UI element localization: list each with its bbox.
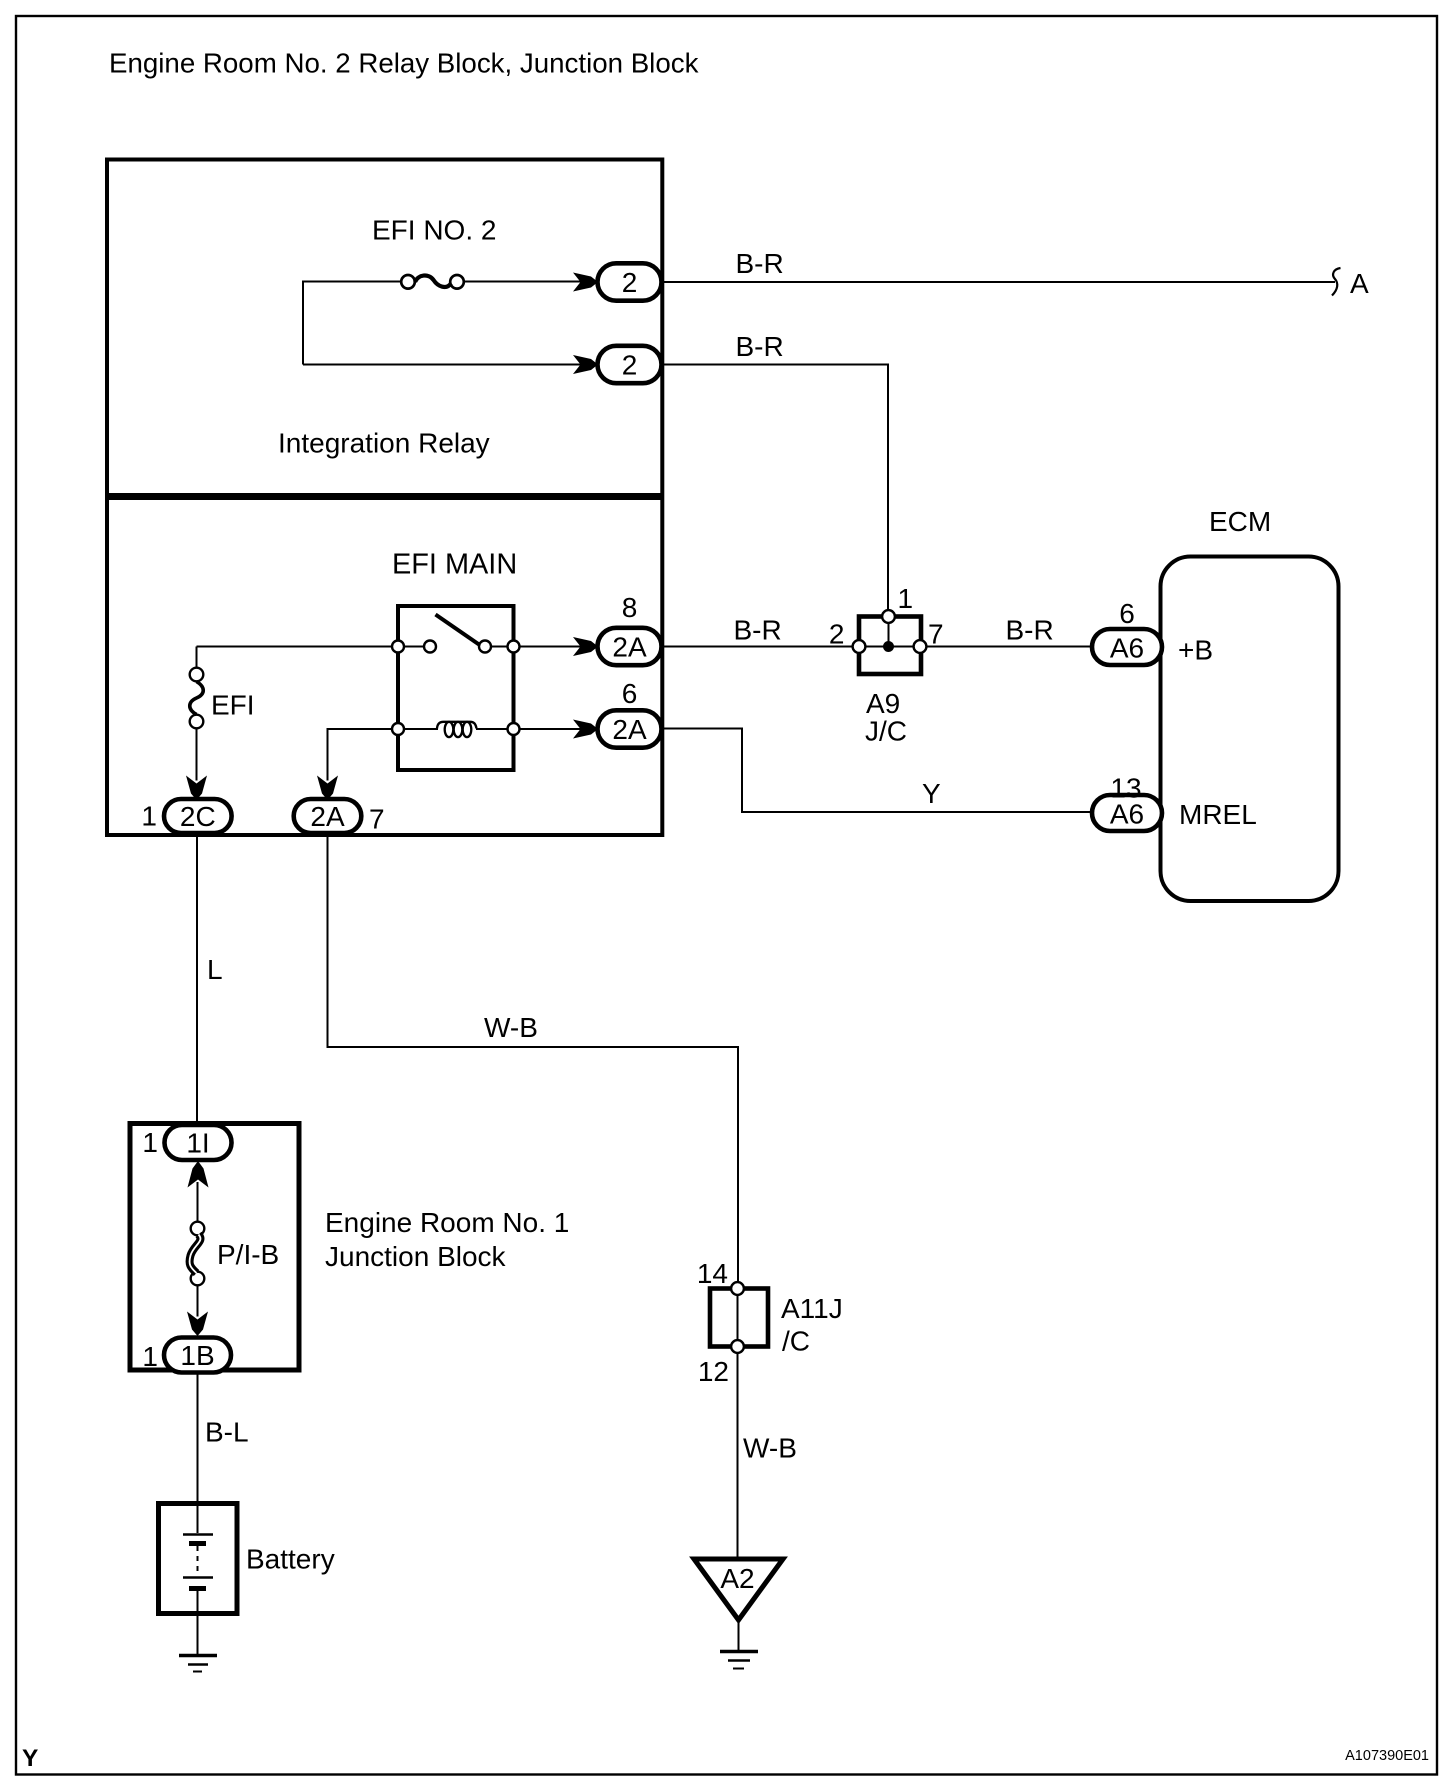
junction connector A11 J/C <box>710 1282 768 1353</box>
svg-text:EFI NO. 2: EFI NO. 2 <box>372 215 496 246</box>
wire: integration relay lower output row <box>303 364 581 366</box>
relay switch contact circles <box>392 641 520 653</box>
wire break symbol at A <box>1332 268 1341 296</box>
svg-text:B-R: B-R <box>736 331 784 362</box>
relay block section divider <box>105 493 663 500</box>
arrow into connector 2A (pin 8) <box>573 637 598 656</box>
svg-text:2: 2 <box>622 350 638 381</box>
arrow into connector 1B <box>187 1312 208 1337</box>
connector oval 2A (pin 6) <box>598 710 662 747</box>
svg-text:1: 1 <box>898 583 914 614</box>
svg-text:13: 13 <box>1110 773 1141 804</box>
svg-text:W-B: W-B <box>484 1012 538 1043</box>
svg-text:/C: /C <box>782 1326 810 1357</box>
svg-text:Engine Room No. 2 Relay Block,: Engine Room No. 2 Relay Block, Junction … <box>109 48 699 79</box>
connector oval 2A (pin 7) <box>294 799 362 833</box>
svg-text:12: 12 <box>698 1356 729 1387</box>
ECM box <box>1161 557 1339 902</box>
svg-text:B-R: B-R <box>734 615 782 646</box>
svg-text:Y: Y <box>22 1745 38 1772</box>
wire W-B: A11 J/C pin 12 to A2 <box>737 1353 739 1557</box>
svg-text:7: 7 <box>369 804 385 835</box>
relay EFI MAIN box <box>398 606 514 770</box>
relay coil terminal circles <box>392 723 520 735</box>
svg-text:2A: 2A <box>612 714 647 745</box>
svg-text:Battery: Battery <box>246 1544 335 1575</box>
svg-text:MREL: MREL <box>1179 799 1257 830</box>
svg-text:Y: Y <box>922 778 941 809</box>
fuse EFI <box>190 668 204 729</box>
svg-text:2A: 2A <box>310 801 345 832</box>
svg-text:1: 1 <box>141 801 157 832</box>
svg-text:Integration Relay: Integration Relay <box>278 428 490 459</box>
wire: to relay switch from EFI fuse branch <box>197 646 399 648</box>
svg-text:2: 2 <box>829 619 845 650</box>
wire: 1I arrow to fusible link <box>197 1182 199 1222</box>
svg-text:6: 6 <box>622 678 638 709</box>
wire: A2 to ground <box>738 1619 740 1650</box>
ground (battery) <box>179 1656 217 1672</box>
wire: fusible link to 1B arrow <box>197 1285 199 1317</box>
svg-text:2A: 2A <box>612 632 647 663</box>
ground (A2) <box>720 1652 758 1669</box>
fuse EFI NO. 2 <box>401 275 464 289</box>
svg-text:J/C: J/C <box>865 716 907 747</box>
svg-text:1I: 1I <box>186 1127 209 1158</box>
wire B-R: pin 2 (top) to A <box>662 281 1336 283</box>
A9 junction dot <box>883 641 894 652</box>
connector oval 2 (top, pin 2) <box>598 263 662 300</box>
svg-text:14: 14 <box>697 1258 728 1289</box>
svg-text:Junction Block: Junction Block <box>325 1241 507 1272</box>
arrow into connector 2A (pin 6) <box>573 720 598 739</box>
svg-text:8: 8 <box>622 592 638 623</box>
wire: fuse EFI NO.2 feed loop <box>303 282 581 365</box>
svg-text:+B: +B <box>1178 635 1213 666</box>
svg-text:7: 7 <box>928 619 944 650</box>
wire: relay coil inner segments <box>398 728 514 730</box>
svg-text:1: 1 <box>142 1127 158 1158</box>
svg-text:ECM: ECM <box>1209 506 1271 537</box>
relay switch blade <box>436 615 480 645</box>
wire W-B: 2A pin 7 to A11 J/C pin 14 <box>328 833 739 1283</box>
wire: relay switch inner segments <box>398 646 514 648</box>
svg-text:L: L <box>207 954 223 985</box>
svg-text:B-R: B-R <box>1006 615 1054 646</box>
svg-text:2C: 2C <box>180 801 216 832</box>
junction connector A9 J/C <box>853 610 927 674</box>
connector oval 2A (pin 8) <box>598 628 662 665</box>
connector oval 2 (lower, pin 2) <box>598 346 662 383</box>
arrow into connector 2 (top) <box>573 273 598 292</box>
Engine Room No.1 Junction Block box <box>130 1124 299 1371</box>
connector oval A6 (pin 13) <box>1092 795 1162 831</box>
ground point triangle A2 <box>694 1559 783 1620</box>
svg-text:1: 1 <box>142 1341 158 1372</box>
svg-text:A11J: A11J <box>781 1293 843 1324</box>
svg-text:EFI: EFI <box>211 690 255 721</box>
wire: relay switch to connector 2A pin 8 <box>514 646 582 648</box>
svg-text:A: A <box>1350 268 1369 299</box>
wire L: 2C to junction block 1I <box>196 833 198 1124</box>
relay block outline (Engine Room No. 2 Relay Block) <box>107 160 662 836</box>
wire B-R: relay block to A9 pin 2 <box>662 646 853 648</box>
A9 pin circles <box>853 610 927 653</box>
svg-text:A9: A9 <box>866 688 900 719</box>
connector oval 1I (pin 1) <box>165 1125 232 1160</box>
relay coil <box>437 722 477 729</box>
connector oval 1B (pin 1) <box>164 1338 231 1373</box>
connector oval A6 (pin 6) <box>1092 629 1162 665</box>
svg-text:A107390E01: A107390E01 <box>1345 1748 1429 1764</box>
svg-text:B-R: B-R <box>736 248 784 279</box>
svg-text:1B: 1B <box>180 1340 214 1371</box>
svg-text:B-L: B-L <box>205 1417 249 1448</box>
connector oval 2C (pin 1) <box>164 799 232 833</box>
wire B-L: 1B to battery <box>197 1373 199 1504</box>
svg-text:Engine Room No. 1: Engine Room No. 1 <box>325 1207 569 1238</box>
battery box <box>159 1504 238 1614</box>
fusible link P/I-B <box>190 1222 205 1286</box>
wire Y: 2A pin 6 to ECM A6 pin 13 <box>662 729 1093 813</box>
wire: EFI fuse drop <box>196 647 198 781</box>
battery internals <box>183 1506 213 1611</box>
svg-text:A6: A6 <box>1110 632 1144 663</box>
arrow into connector 2A (pin 7) <box>317 776 338 801</box>
svg-text:A2: A2 <box>720 1563 754 1594</box>
wire: battery to ground <box>197 1614 199 1654</box>
wire B-R: pin 2 (lower) to A9 pin 1 <box>662 365 889 611</box>
arrow into connector 2 (lower) <box>573 355 598 374</box>
svg-text:EFI MAIN: EFI MAIN <box>392 549 517 581</box>
wire: coil branch from 2A pin 7 <box>328 729 399 781</box>
svg-text:P/I-B: P/I-B <box>217 1239 279 1270</box>
wire: relay coil to connector 2A pin 6 <box>514 728 582 730</box>
arrow up toward 1I <box>188 1161 209 1188</box>
svg-text:6: 6 <box>1119 598 1135 629</box>
svg-text:2: 2 <box>622 267 638 298</box>
wire B-R: A9 pin 7 to ECM A6 pin 6 <box>927 646 1093 648</box>
arrow into connector 2C <box>186 776 207 801</box>
svg-text:W-B: W-B <box>743 1433 797 1464</box>
